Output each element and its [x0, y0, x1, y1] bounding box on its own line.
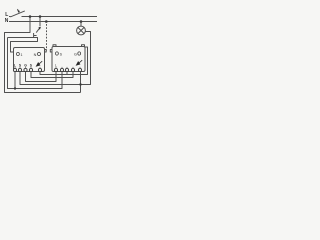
svg-text:O: O: [37, 52, 41, 58]
svg-text:N: N: [5, 18, 9, 24]
svg-text:L: L: [55, 64, 57, 68]
svg-text:O: O: [55, 51, 59, 57]
svg-text:L: L: [14, 63, 16, 67]
svg-text:S: S: [30, 63, 33, 67]
svg-text:S: S: [19, 63, 22, 67]
svg-text:O: O: [16, 52, 20, 58]
svg-text:O: O: [77, 51, 81, 57]
svg-text:1: 1: [21, 53, 23, 57]
svg-text:S: S: [60, 52, 63, 56]
svg-text:G: G: [24, 63, 27, 67]
